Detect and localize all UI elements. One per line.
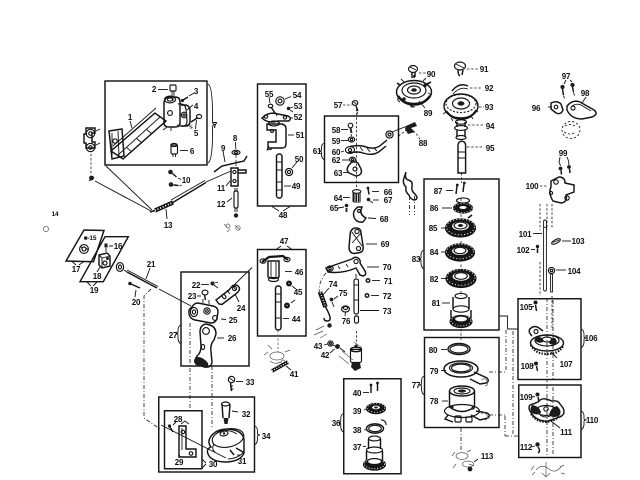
scribbles left of 106: [481, 379, 488, 420]
coupling 113 below pump: [452, 428, 478, 471]
svg-text:99: 99: [559, 149, 568, 158]
svg-text:77: 77: [412, 381, 421, 390]
svg-text:57: 57: [334, 101, 343, 110]
group box 47: [258, 246, 307, 336]
svg-text:93: 93: [485, 103, 494, 112]
svg-text:43: 43: [314, 342, 323, 351]
svg-text:112: 112: [520, 443, 533, 452]
svg-text:34: 34: [262, 432, 271, 441]
screw 108: [532, 362, 538, 372]
svg-text:103: 103: [572, 237, 585, 246]
screws 97: [560, 80, 574, 99]
gear 86: [442, 198, 473, 213]
svg-text:110: 110: [586, 416, 599, 425]
connector box77 to 106: [499, 316, 518, 329]
gear washer 39: [364, 403, 386, 413]
svg-text:■-15: ■-15: [84, 235, 97, 242]
nut 50: [285, 162, 297, 176]
svg-text:98: 98: [581, 89, 590, 98]
svg-text:27: 27: [169, 331, 178, 340]
diagonal in box 34: [161, 425, 226, 458]
svg-text:41: 41: [290, 370, 299, 379]
ring 54: [276, 97, 291, 106]
washer 8: [232, 142, 240, 166]
screw 109: [532, 393, 540, 403]
oring 38: [364, 420, 386, 433]
connector box77 to 110: [489, 331, 519, 436]
svg-text:58: 58: [332, 126, 341, 135]
nuts 45: [284, 281, 296, 309]
pin 67: [367, 198, 379, 203]
svg-text:86: 86: [430, 204, 439, 213]
spring 74: [320, 288, 330, 321]
screw 3: [181, 93, 194, 102]
clamp bracket left: [84, 128, 100, 152]
pulley 93: [443, 94, 484, 121]
handle 46: [260, 256, 292, 282]
gear 82: [441, 270, 476, 288]
svg-text:21: 21: [147, 260, 156, 269]
svg-text:29: 29: [175, 458, 184, 467]
svg-text:106: 106: [585, 334, 598, 343]
svg-text:104: 104: [568, 267, 581, 276]
svg-text:18: 18: [93, 272, 102, 281]
svg-text:113: 113: [481, 452, 494, 461]
svg-text:65: 65: [330, 204, 339, 213]
bolt 23: [197, 290, 208, 300]
bracket 98: [567, 97, 596, 119]
svg-text:49: 49: [292, 182, 301, 191]
svg-text:36: 36: [332, 419, 341, 428]
svg-text:81: 81: [432, 299, 441, 308]
group box 110: [519, 385, 587, 458]
svg-text:100: 100: [526, 182, 539, 191]
svg-text:54: 54: [293, 91, 302, 100]
svg-text:63: 63: [334, 169, 343, 178]
dash-dot centerline left: [144, 289, 160, 429]
rod assy 24: [216, 268, 252, 305]
svg-text:82: 82: [430, 275, 439, 284]
pivot housing below 73: [314, 323, 362, 371]
svg-text:109: 109: [520, 393, 533, 402]
bolt 91: [455, 62, 479, 76]
nut 76: [342, 306, 350, 316]
svg-text:111: 111: [560, 428, 573, 437]
svg-text:101: 101: [519, 230, 532, 239]
svg-text:13: 13: [164, 221, 173, 230]
bracket 29: [179, 421, 196, 457]
nut 72: [365, 293, 380, 298]
svg-text:38: 38: [353, 426, 362, 435]
svg-text:87: 87: [434, 187, 443, 196]
svg-text:59: 59: [332, 137, 341, 146]
washer 62: [342, 157, 356, 162]
svg-text:90: 90: [427, 70, 436, 79]
svg-text:74: 74: [329, 280, 338, 289]
screw 16: [105, 244, 114, 253]
pin 20: [128, 282, 140, 297]
pinion 81: [442, 293, 472, 327]
pin 66: [367, 187, 379, 195]
svg-text:22: 22: [192, 281, 201, 290]
label 1: [128, 113, 133, 128]
cam 63: [343, 162, 361, 176]
dash centerlines into box 106: [547, 298, 553, 457]
leaf 103: [551, 238, 571, 246]
svg-text:19: 19: [90, 286, 99, 295]
group box 83 gear stack: [419, 179, 500, 330]
svg-text:80: 80: [429, 346, 438, 355]
prop shaft 44: [276, 286, 290, 330]
group box 36: [338, 379, 401, 474]
svg-text:33: 33: [246, 378, 255, 387]
washers 20 area: [116, 263, 127, 272]
svg-text:52: 52: [294, 113, 303, 122]
svg-text:92: 92: [485, 84, 494, 93]
svg-text:39: 39: [353, 407, 362, 416]
bolt 2: [158, 85, 176, 101]
group box 61: [319, 116, 399, 183]
parallelogram 17: [66, 230, 104, 265]
svg-text:94: 94: [486, 122, 495, 131]
bolt 112: [531, 442, 540, 453]
svg-text:25: 25: [229, 316, 238, 325]
group box 34: [159, 397, 260, 472]
leader line to spring: [95, 181, 151, 211]
svg-text:48: 48: [279, 211, 288, 220]
bracket 7 brace: [208, 84, 215, 163]
svg-text:46: 46: [295, 268, 304, 277]
svg-text:102: 102: [517, 246, 530, 255]
centerline to box 77: [460, 329, 462, 341]
bracket 25: [159, 289, 226, 323]
svg-text:31: 31: [238, 457, 247, 466]
link 11: [226, 168, 246, 186]
svg-text:40: 40: [353, 389, 362, 398]
spring washer 92: [452, 85, 482, 94]
svg-text:17: 17: [72, 265, 81, 274]
pin 12: [227, 188, 238, 218]
svg-text:108: 108: [521, 362, 534, 371]
stud below clamp: [89, 154, 94, 181]
svg-text:95: 95: [486, 144, 495, 153]
clamp 51: [267, 121, 294, 150]
rod 21: [127, 268, 158, 288]
mark circle: [43, 226, 48, 231]
screw 53: [287, 107, 293, 112]
nut 71: [366, 278, 381, 283]
svg-text:76: 76: [342, 317, 351, 326]
bolt 104: [548, 267, 566, 292]
svg-text:70: 70: [383, 263, 392, 272]
screw 55: [268, 97, 277, 116]
svg-text:47: 47: [280, 237, 289, 246]
svg-text:105: 105: [520, 303, 533, 312]
dashed centerlines below 100: [540, 204, 552, 230]
gear 85: [441, 215, 476, 237]
svg-text:37: 37: [353, 443, 362, 452]
link rod 73: [354, 274, 379, 323]
svg-text:72: 72: [383, 292, 392, 301]
svg-text:96: 96: [532, 104, 541, 113]
screw 58: [341, 123, 353, 136]
dashed detail below 96: [562, 122, 580, 139]
group box 30 inner: [165, 411, 207, 469]
rod to link leader: [206, 171, 231, 182]
starter pulley 89: [397, 75, 432, 108]
svg-text:83: 83: [412, 255, 421, 264]
fork arm 70: [319, 257, 379, 293]
gear centerline dashes: [460, 199, 462, 297]
svg-text:26: 26: [228, 334, 237, 343]
pin 28: [168, 422, 176, 432]
svg-text:62: 62: [332, 156, 341, 165]
spring 41: [272, 362, 291, 371]
svg-text:97: 97: [562, 72, 571, 81]
bushing 64: [343, 190, 361, 203]
washer 59: [341, 137, 355, 142]
stud 102: [531, 245, 539, 253]
svg-text:78: 78: [430, 397, 439, 406]
rod 101: [533, 220, 547, 291]
drum 31: [207, 426, 245, 462]
screws 10: [168, 170, 181, 187]
parallelogram 19: [80, 237, 128, 286]
plate 69: [349, 228, 377, 254]
svg-text:28: 28: [174, 415, 183, 424]
pins 40: [363, 382, 379, 393]
shaft 49: [277, 154, 292, 198]
screw 33: [228, 376, 243, 391]
block 18: [97, 253, 110, 272]
hook 68: [354, 207, 377, 222]
svg-text:55: 55: [265, 90, 274, 99]
oring 80: [441, 344, 470, 355]
group box 106: [518, 299, 587, 380]
lever 96: [548, 102, 563, 114]
group box 77 water pump: [419, 338, 499, 428]
dash-dot lines to box34: [189, 323, 191, 409]
svg-text:67: 67: [384, 196, 393, 205]
svg-text:32: 32: [242, 410, 251, 419]
svg-text:107: 107: [560, 360, 573, 369]
svg-text:45: 45: [294, 288, 303, 297]
clip 88: [399, 122, 421, 140]
svg-text:24: 24: [237, 304, 246, 313]
svg-text:75: 75: [339, 289, 348, 298]
arm 60: [341, 109, 406, 196]
ratchet drum 107: [529, 327, 563, 359]
svg-text:79: 79: [430, 367, 439, 376]
spool 94: [455, 120, 485, 140]
svg-text:50: 50: [295, 155, 304, 164]
svg-text:68: 68: [380, 215, 389, 224]
svg-text:71: 71: [384, 277, 393, 286]
sketchy hub below 47: [264, 330, 290, 364]
cam lever 26: [194, 324, 224, 368]
svg-text:14: 14: [52, 211, 59, 218]
group box 48: [258, 84, 307, 211]
rod 9: [214, 151, 247, 172]
svg-text:61: 61: [313, 147, 322, 156]
bushing 6: [171, 143, 188, 157]
svg-text:23: 23: [188, 292, 197, 301]
svg-text:53: 53: [294, 102, 303, 111]
screw 75: [330, 296, 338, 307]
centerline 95 to 83: [461, 173, 463, 183]
screw 65: [338, 204, 348, 212]
svg-text:20: 20: [132, 298, 141, 307]
group box 27: [176, 272, 250, 366]
spring rod 13: [150, 181, 206, 220]
parts 43 42: [324, 341, 345, 353]
svg-text:91: 91: [480, 65, 489, 74]
group box 1-6 assembly: [105, 81, 207, 165]
svg-text:64: 64: [334, 194, 343, 203]
bolts 99: [559, 157, 571, 175]
svg-text:73: 73: [383, 307, 392, 316]
bolt 90: [409, 66, 427, 79]
bracket 100: [540, 177, 574, 203]
gear 84: [441, 244, 475, 261]
small sketch under 12: [224, 224, 240, 232]
clutch gear 37: [363, 436, 386, 470]
svg-text:16: 16: [114, 242, 123, 251]
svg-text:69: 69: [381, 240, 390, 249]
nut 17: [80, 245, 89, 254]
pins 87: [446, 182, 466, 194]
screw 57: [343, 101, 358, 114]
svg-text:12: 12: [217, 200, 226, 209]
rocker 52: [262, 113, 293, 122]
svg-text:44: 44: [292, 315, 301, 324]
svg-text:85: 85: [429, 224, 438, 233]
svg-text:42: 42: [321, 351, 330, 360]
cam plate 111: [529, 399, 564, 428]
leader line box to link: [106, 166, 152, 210]
clip lever top: [403, 172, 417, 215]
plunger 32: [222, 402, 239, 424]
svg-text:88: 88: [419, 139, 428, 148]
svg-text:51: 51: [296, 131, 305, 140]
screw 22: [201, 282, 218, 289]
svg-text:10: 10: [182, 176, 191, 185]
swivel arm 1: [109, 96, 190, 159]
squiggle below box 110: [531, 462, 565, 477]
plate 4: [177, 104, 193, 126]
impeller plate 79: [441, 330, 506, 384]
svg-text:84: 84: [430, 248, 439, 257]
shaft 95: [458, 141, 484, 173]
screw 105: [531, 301, 538, 312]
svg-text:11: 11: [217, 184, 226, 193]
pump housing 78: [442, 386, 489, 422]
svg-text:89: 89: [424, 109, 433, 118]
bolt 5: [187, 115, 202, 130]
